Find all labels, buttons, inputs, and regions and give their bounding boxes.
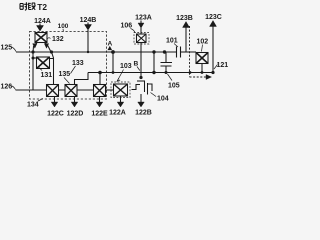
node dot (33,58): [32, 57, 35, 60]
output arrow 122A: [120, 96, 122, 102]
dashed box 100: [30, 32, 107, 100]
dashed box around 103: [111, 82, 130, 98]
current arrowhead right: [44, 44, 48, 49]
wire 102 to rail 2: [201, 64, 203, 73]
switch 132 (crossed box): [35, 33, 47, 43]
svg-text:T2: T2: [37, 2, 47, 12]
rail wire (row 1, y=52): [16, 51, 176, 53]
switch 102 (crossed box): [196, 53, 208, 64]
transistor 104: [139, 76, 142, 79]
svg-text:103: 103: [120, 63, 132, 70]
bus link: [77, 89, 94, 91]
svg-text:123A: 123A: [135, 15, 152, 22]
svg-text:126: 126: [1, 84, 13, 91]
svg-text:123C: 123C: [205, 14, 222, 21]
stubs of 131: [33, 57, 53, 60]
capacitor 105: [165, 52, 167, 63]
svg-text:134: 134: [27, 102, 39, 109]
output arrow 122E: [99, 97, 101, 103]
vertical wire x=33: [32, 52, 34, 90]
current arrowhead left: [33, 44, 37, 49]
output box 122C (crossed box): [47, 85, 59, 97]
svg-text:122C: 122C: [47, 111, 64, 118]
svg-text:122D: 122D: [67, 111, 84, 118]
svg-text:102: 102: [197, 39, 209, 46]
node dots on rail 1: [31, 50, 166, 54]
output arrow 122B: [140, 94, 142, 102]
wire 124B down: [87, 30, 89, 52]
feed wire to 122E: [99, 73, 101, 85]
switch 131 (crossed box): [37, 57, 50, 69]
capacitor 105 wire x=154: [153, 52, 155, 73]
svg-text:125: 125: [1, 45, 13, 52]
svg-text:122A: 122A: [109, 110, 126, 117]
svg-text:105: 105: [168, 83, 180, 90]
dashed box 106: [134, 33, 149, 45]
svg-text:121: 121: [217, 62, 229, 69]
switch 106 (crossed box): [137, 34, 147, 43]
svg-text:124A: 124A: [34, 18, 51, 25]
svg-text:106: 106: [121, 23, 133, 30]
rail wire (row 2, y=72.5): [88, 72, 213, 74]
branch wire right under 132: [45, 43, 51, 53]
svg-text:122E: 122E: [91, 111, 108, 118]
svg-text:B: B: [134, 61, 139, 68]
dashed current path: [190, 26, 207, 77]
output box 122E (crossed box): [94, 85, 106, 97]
svg-text:133: 133: [72, 60, 84, 67]
switch 103 (crossed box): [114, 84, 128, 96]
transistor 101: [176, 47, 178, 58]
current path arrowhead: [206, 75, 212, 80]
node dots on rail 2: [98, 71, 214, 75]
svg-text:135: 135: [59, 71, 71, 78]
svg-text:101: 101: [166, 38, 178, 45]
vertical wire x=52: [52, 52, 54, 85]
wire B (x=141, down to transistor 104): [140, 43, 142, 78]
title 时段 T2: [20, 2, 36, 10]
corner feed to 122D: [75, 73, 89, 85]
svg-text:123B: 123B: [176, 15, 193, 22]
bus link across dashed edge: [106, 89, 114, 91]
svg-text:104: 104: [157, 96, 169, 103]
svg-text:131: 131: [41, 72, 53, 79]
output arrow 122C: [54, 97, 56, 103]
svg-text:122B: 122B: [135, 110, 152, 117]
wire x=113 (rail1 to rail2): [112, 52, 114, 73]
svg-text:132: 132: [52, 36, 64, 43]
branch wire left under 132: [33, 43, 37, 53]
output box 122D (crossed box): [65, 85, 77, 97]
output arrow 122D: [74, 97, 76, 103]
bus link: [59, 89, 66, 91]
